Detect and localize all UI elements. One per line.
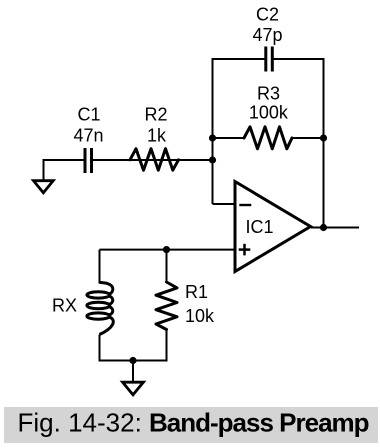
svg-text:RX: RX (52, 296, 77, 316)
wire R1 bottom (166, 330, 168, 362)
svg-text:Fig. 14-32: Band-pass Preamp: Fig. 14-32: Band-pass Preamp (18, 408, 369, 438)
wire right feedback vertical (323, 59, 325, 228)
wire output (311, 227, 359, 229)
ground (bottom) (123, 382, 144, 395)
capacitor C2 (266, 47, 273, 72)
svg-text:R2: R2 (144, 104, 167, 124)
wire bottom rail (99, 360, 168, 362)
svg-text:100k: 100k (249, 103, 289, 123)
svg-text:47p: 47p (252, 25, 282, 45)
wire top rail left of C2 (212, 58, 265, 60)
inductor RX (87, 283, 113, 335)
svg-text:C1: C1 (77, 104, 100, 124)
capacitor C1 (85, 148, 92, 173)
resistor R2 (130, 149, 179, 171)
svg-text:C2: C2 (256, 4, 279, 24)
node junction at input (209, 156, 216, 163)
wire minus input stub (213, 203, 237, 205)
op-amp IC1 triangle (235, 182, 311, 272)
caption bar (4, 407, 378, 443)
wire input rail C1 to node (93, 159, 214, 161)
op-amp plus sign (239, 244, 251, 256)
node junction at R3 right (320, 134, 327, 141)
svg-text:R1: R1 (185, 282, 208, 302)
node junction at R3 left (209, 134, 216, 141)
resistor R3 (244, 127, 292, 149)
wire left feedback vertical (212, 59, 214, 204)
svg-text:1k: 1k (147, 125, 167, 145)
wire ground stub left (43, 159, 45, 180)
op-amp minus sign (239, 204, 251, 206)
ground (left) (34, 181, 54, 193)
wire RX bottom (99, 335, 101, 362)
svg-text:R3: R3 (257, 84, 280, 104)
wire R1 top (166, 249, 168, 282)
node junction at output (320, 224, 327, 231)
svg-text:IC1: IC1 (246, 217, 274, 237)
node junction ground (129, 357, 136, 364)
svg-text:10k: 10k (185, 306, 215, 326)
wire R3 rail right (291, 137, 324, 139)
wire R3 rail left (213, 137, 246, 139)
node junction R1 top (163, 246, 170, 253)
wire input rail left of C1 (44, 159, 84, 161)
svg-text:47n: 47n (73, 125, 103, 145)
wire plus input rail (100, 250, 237, 284)
wire top rail right of C2 (274, 58, 325, 60)
resistor R1 (156, 282, 177, 330)
wire ground stub bottom (132, 361, 134, 382)
